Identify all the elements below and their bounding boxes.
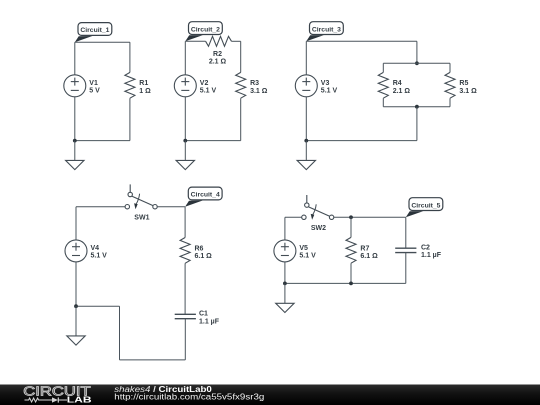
wire bbox=[157, 206, 185, 208]
svg-text:2.1 Ω: 2.1 Ω bbox=[393, 88, 411, 95]
node label Circuit_2 bbox=[185, 22, 222, 42]
ground bbox=[176, 141, 194, 170]
junction bbox=[283, 282, 287, 286]
svg-text:1.1 µF: 1.1 µF bbox=[199, 318, 220, 325]
svg-text:5.1 V: 5.1 V bbox=[321, 87, 338, 94]
svg-text:Circuit_1: Circuit_1 bbox=[80, 27, 109, 34]
wire bbox=[306, 140, 417, 142]
wire bbox=[334, 216, 406, 218]
resistor R4 bbox=[378, 72, 410, 98]
svg-text:5.1 V: 5.1 V bbox=[200, 87, 217, 94]
svg-text:V1: V1 bbox=[89, 80, 98, 87]
svg-text:1 Ω: 1 Ω bbox=[139, 88, 151, 95]
svg-text:SW2: SW2 bbox=[311, 225, 326, 232]
wire bbox=[285, 282, 406, 284]
svg-text:5.1 V: 5.1 V bbox=[299, 253, 316, 260]
wire bbox=[184, 97, 186, 141]
wire bbox=[74, 97, 76, 141]
svg-text:R7: R7 bbox=[360, 245, 369, 252]
wire bbox=[75, 41, 130, 43]
wire bbox=[185, 140, 240, 142]
wire bbox=[75, 140, 130, 142]
junction bbox=[415, 105, 419, 109]
node label Circuit_3 bbox=[306, 22, 343, 42]
wire bbox=[285, 216, 302, 218]
wire bbox=[232, 40, 241, 42]
switch SW1 bbox=[125, 184, 157, 221]
wire bbox=[129, 42, 131, 72]
wire bbox=[120, 359, 186, 361]
wire bbox=[184, 263, 186, 314]
svg-text:R1: R1 bbox=[139, 80, 148, 87]
svg-text:5.1 V: 5.1 V bbox=[91, 253, 108, 260]
wire bbox=[382, 63, 384, 72]
wire bbox=[75, 207, 77, 240]
resistor R1 bbox=[125, 72, 151, 98]
wire bbox=[284, 217, 286, 240]
svg-text:1.1 µF: 1.1 µF bbox=[421, 252, 442, 259]
wire bbox=[240, 41, 242, 72]
CircuitLab logo bbox=[23, 383, 92, 404]
wire bbox=[119, 306, 121, 360]
wire bbox=[382, 98, 384, 107]
resistor R5 bbox=[445, 72, 477, 98]
junction bbox=[304, 139, 308, 143]
svg-text:Circuit_4: Circuit_4 bbox=[191, 192, 220, 199]
junction bbox=[349, 215, 353, 219]
wire bbox=[75, 262, 77, 306]
wire bbox=[350, 217, 352, 237]
svg-text:V3: V3 bbox=[321, 80, 330, 87]
voltage source V3 bbox=[295, 75, 337, 97]
svg-text:LAB: LAB bbox=[67, 396, 92, 405]
wire bbox=[383, 62, 450, 64]
wire bbox=[449, 98, 451, 107]
node label Circuit_5 bbox=[406, 198, 443, 218]
svg-text:5 V: 5 V bbox=[89, 87, 100, 94]
wire bbox=[405, 217, 407, 248]
svg-text:6.1 Ω: 6.1 Ω bbox=[195, 253, 213, 260]
wire bbox=[74, 42, 76, 75]
svg-text:C1: C1 bbox=[199, 311, 208, 318]
svg-text:2.1 Ω: 2.1 Ω bbox=[209, 58, 227, 65]
svg-text:R2: R2 bbox=[213, 51, 222, 58]
wire bbox=[416, 41, 418, 63]
voltage source V1 bbox=[64, 75, 100, 97]
footer bar bbox=[0, 385, 540, 405]
svg-text:V4: V4 bbox=[91, 245, 100, 252]
wire bbox=[350, 263, 352, 283]
wire bbox=[306, 40, 417, 42]
svg-text:Circuit_3: Circuit_3 bbox=[312, 26, 341, 33]
svg-text:http://circuitlab.com/ca55v5fx: http://circuitlab.com/ca55v5fx9sr3g bbox=[114, 392, 264, 401]
wire bbox=[185, 40, 205, 42]
wire bbox=[449, 63, 451, 72]
ground bbox=[67, 306, 85, 345]
svg-text:SW1: SW1 bbox=[134, 214, 149, 221]
svg-text:R6: R6 bbox=[195, 245, 204, 252]
svg-text:V2: V2 bbox=[200, 80, 209, 87]
junction bbox=[74, 304, 78, 308]
svg-text:R4: R4 bbox=[393, 80, 402, 87]
svg-text:3.1 Ω: 3.1 Ω bbox=[459, 88, 477, 95]
voltage source V2 bbox=[174, 75, 216, 97]
svg-text:R3: R3 bbox=[250, 80, 259, 87]
wire bbox=[305, 97, 307, 141]
svg-text:R5: R5 bbox=[459, 80, 468, 87]
wire bbox=[284, 262, 286, 284]
node label Circuit_4 bbox=[185, 187, 222, 207]
wire bbox=[184, 41, 186, 75]
voltage source V5 bbox=[274, 240, 316, 262]
wire bbox=[240, 98, 242, 140]
ground bbox=[276, 283, 294, 312]
junction bbox=[73, 139, 77, 143]
wire bbox=[129, 98, 131, 140]
svg-text:Circuit_5: Circuit_5 bbox=[411, 202, 440, 209]
svg-text:C2: C2 bbox=[421, 244, 430, 251]
wire bbox=[76, 305, 120, 307]
svg-text:Circuit_2: Circuit_2 bbox=[191, 26, 220, 33]
ground bbox=[66, 141, 84, 170]
ground bbox=[297, 141, 315, 170]
resistor R7 bbox=[346, 237, 378, 263]
node label Circuit_1 bbox=[75, 23, 112, 43]
svg-text:6.1 Ω: 6.1 Ω bbox=[360, 253, 378, 260]
resistor R3 bbox=[236, 72, 268, 98]
resistor R2 bbox=[206, 36, 232, 65]
capacitor C1 bbox=[175, 311, 220, 326]
voltage source V4 bbox=[65, 240, 107, 262]
junction bbox=[349, 282, 353, 286]
svg-text:3.1 Ω: 3.1 Ω bbox=[250, 88, 268, 95]
svg-text:V5: V5 bbox=[299, 245, 308, 252]
junction bbox=[415, 61, 419, 65]
wire bbox=[184, 319, 186, 360]
wire bbox=[76, 206, 125, 208]
junction bbox=[183, 139, 187, 143]
resistor R6 bbox=[180, 238, 212, 264]
wire bbox=[184, 207, 186, 238]
wire bbox=[305, 41, 307, 75]
capacitor C2 bbox=[395, 244, 442, 259]
wire bbox=[416, 107, 418, 141]
switch SW2 bbox=[302, 195, 334, 232]
wire bbox=[383, 106, 450, 108]
wire bbox=[405, 253, 407, 284]
